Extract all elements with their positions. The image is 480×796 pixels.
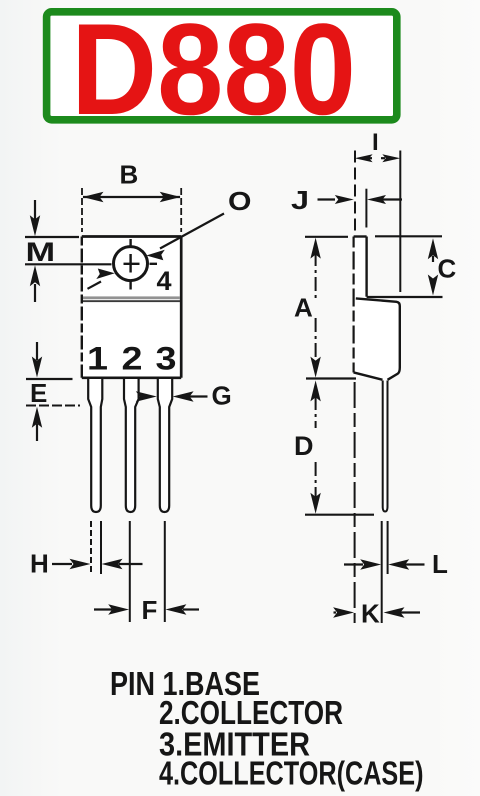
side view body: [354, 298, 400, 380]
pin1 edge extension lines: [91, 521, 101, 574]
front view body outline: [82, 237, 181, 378]
svg-text:L: L: [432, 549, 448, 579]
dimension I: [355, 129, 401, 292]
dimension K: [333, 599, 420, 629]
side view lead: [383, 381, 388, 512]
tab separation band: [83, 296, 180, 302]
svg-text:4.COLLECTOR(CASE): 4.COLLECTOR(CASE): [159, 755, 424, 792]
svg-text:M: M: [26, 236, 56, 267]
dimension G: [136, 381, 232, 411]
dimension J: [291, 186, 402, 227]
mounting hole: [114, 239, 158, 290]
dimension A: [294, 237, 356, 379]
svg-text:B: B: [120, 160, 139, 190]
svg-text:3: 3: [156, 341, 177, 377]
svg-text:1: 1: [87, 341, 108, 377]
svg-text:A: A: [294, 293, 313, 323]
svg-text:4: 4: [157, 266, 172, 296]
dimension C: [367, 236, 457, 297]
dimension M: [25, 200, 112, 302]
dimension B: [82, 160, 181, 233]
dimension O leader: [88, 187, 252, 289]
pin digits 1 2 3: [87, 341, 177, 377]
pin 3 lead: [158, 379, 172, 512]
svg-text:C: C: [438, 254, 457, 284]
side view tab: [354, 237, 367, 378]
title box D880: [47, 0, 397, 142]
pin 1 lead: [88, 379, 102, 512]
svg-text:2: 2: [122, 341, 143, 377]
svg-text:F: F: [142, 595, 158, 625]
svg-text:D880: D880: [71, 0, 356, 142]
svg-text:H: H: [30, 549, 49, 579]
svg-text:K: K: [361, 599, 380, 629]
pin 4 label: [157, 266, 172, 296]
pin description text: [110, 665, 424, 792]
svg-text:O: O: [228, 187, 251, 216]
dimension F: [94, 595, 199, 625]
lead edge extension lines: [382, 521, 388, 623]
dimension H: [30, 549, 143, 579]
svg-text:G: G: [212, 381, 232, 411]
pin2/pin3 center extension lines: [130, 521, 165, 622]
tab edge extension to K: [354, 382, 356, 623]
dimension D: [294, 380, 374, 514]
svg-text:I: I: [372, 129, 379, 156]
dimension E: [26, 342, 80, 441]
svg-text:J: J: [291, 186, 309, 215]
svg-text:E: E: [30, 378, 47, 408]
pin 2 lead: [124, 379, 139, 512]
svg-text:D: D: [294, 431, 314, 461]
dimension L: [344, 549, 448, 579]
